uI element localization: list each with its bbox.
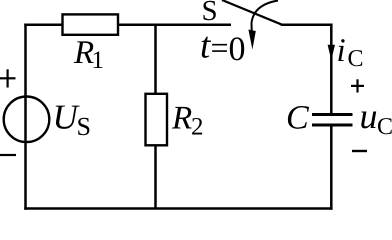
wire top-right segment (switch pivot to right corner) [282, 23, 331, 26]
resistor R2 (body) [146, 94, 168, 146]
svg-text:S: S [77, 112, 91, 141]
wire right vertical upper (to capacitor top plate) [330, 25, 333, 115]
polarity minus (source, bottom-left) [0, 154, 16, 156]
svg-text:R: R [171, 101, 192, 137]
wire bottom horizontal [26, 207, 332, 210]
svg-text:C: C [348, 46, 364, 72]
current iC arrow (on right wire, pointing down) [328, 45, 335, 60]
switch closing arrow (curved, rotating blade down) [252, 1, 279, 34]
capacitor C bottom plate [312, 124, 353, 127]
polarity plus (source, top-left) [0, 69, 16, 87]
svg-text:S: S [202, 0, 218, 27]
wire middle branch upper (top wire to R2) [154, 25, 157, 94]
wire top-middle segment (R1 to switch contact) [117, 23, 231, 26]
voltage source US (circle) [4, 97, 50, 143]
capacitor C top plate [312, 113, 353, 116]
svg-text:u: u [360, 96, 378, 136]
polarity plus (capacitor, right) [351, 79, 364, 92]
svg-text:i: i [337, 33, 346, 69]
wire middle branch lower (R2 to bottom wire) [154, 145, 157, 209]
svg-text:C: C [286, 100, 309, 137]
svg-text:1: 1 [92, 47, 105, 74]
wire left vertical [24, 25, 27, 209]
wire right vertical lower (capacitor bottom plate to bottom wire) [330, 125, 333, 209]
polarity minus (capacitor, right) [352, 150, 367, 152]
svg-text:C: C [377, 114, 392, 140]
wire top-left segment (left corner to R1) [26, 23, 64, 26]
svg-text:2: 2 [191, 114, 204, 141]
switch S blade (open, tilted up-left) [222, 0, 282, 25]
svg-text:0: 0 [229, 31, 246, 68]
svg-text:=: = [211, 30, 229, 66]
resistor R1 (body) [63, 14, 119, 34]
